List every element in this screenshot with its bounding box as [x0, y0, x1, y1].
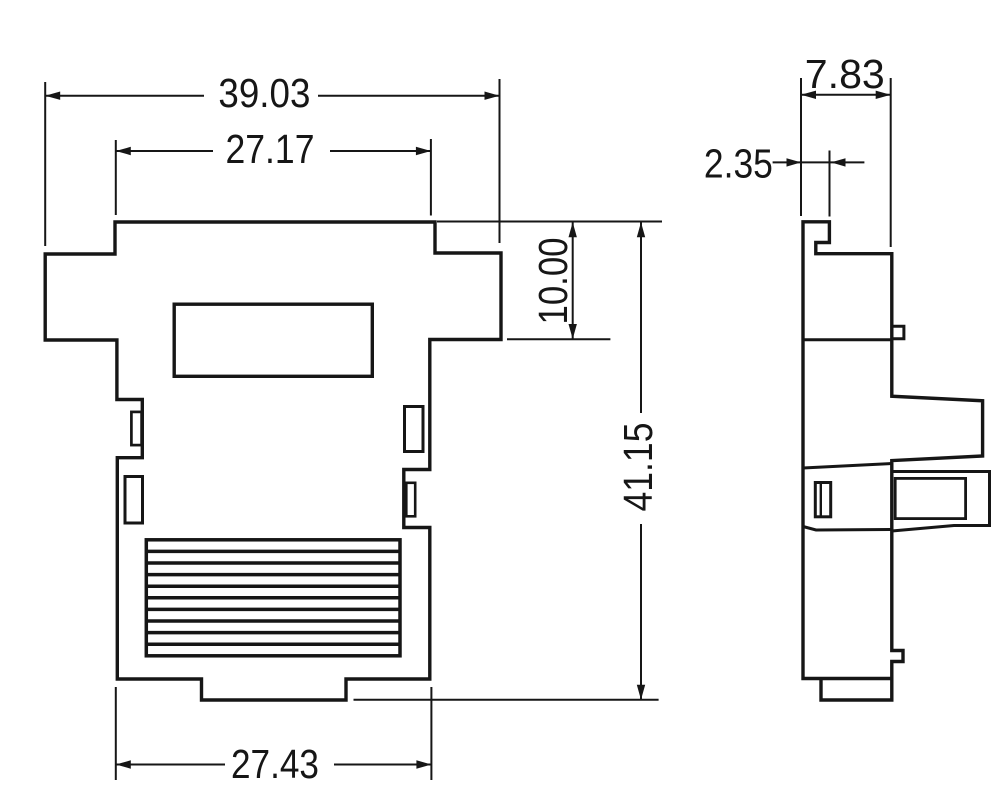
- ext line 27.17 right: [430, 139, 432, 216]
- dim line 7.83: [801, 94, 891, 96]
- ext line 39.03 right: [499, 79, 501, 243]
- side view lower jaw inner rect: [895, 478, 965, 518]
- side view clamp bottom edge: [803, 527, 892, 531]
- ext line 41.15 bottom: [354, 699, 659, 701]
- side view spine outline: [803, 222, 983, 679]
- side view button inner line: [820, 483, 822, 517]
- dim line 10.00: [572, 222, 574, 339]
- svg-text:27.17: 27.17: [226, 126, 315, 172]
- ext line 10.00 bottom: [507, 338, 610, 340]
- side view lower jaw: [892, 472, 990, 532]
- svg-text:39.03: 39.03: [218, 70, 310, 116]
- arrow 27.43 right: [416, 760, 431, 768]
- svg-text:7.83: 7.83: [805, 51, 885, 97]
- ext line 7.83 right: [890, 78, 892, 247]
- svg-text:2.35: 2.35: [704, 141, 773, 187]
- arrow 10.00 top: [569, 222, 577, 237]
- dim line 27.43: [116, 764, 432, 766]
- arrow 41.15 top: [637, 222, 645, 237]
- dim line 27.17: [116, 150, 431, 152]
- ext line 27.43 left: [115, 687, 117, 780]
- arrow 27.43 left: [116, 760, 131, 768]
- dim line 2.35: [773, 161, 865, 163]
- ext line 27.17 left: [115, 140, 117, 215]
- svg-text:27.43: 27.43: [231, 741, 319, 787]
- ext line 39.03 left: [44, 82, 46, 246]
- rib lines: [146, 551, 400, 644]
- svg-text:41.15: 41.15: [615, 423, 661, 512]
- arrow 39.03 right: [485, 92, 500, 100]
- side view flange internal line: [803, 338, 892, 341]
- front view outline: [45, 222, 501, 700]
- arrow 39.03 left: [45, 92, 60, 100]
- side view foot: [821, 679, 892, 701]
- ribbed cable grip box: [146, 540, 400, 656]
- arrow 2.35 left: [787, 158, 802, 166]
- svg-text:10.00: 10.00: [530, 238, 576, 325]
- label recess rectangle: [174, 304, 372, 376]
- side view small right tab: [892, 326, 904, 339]
- arrow 27.17 left: [116, 147, 131, 155]
- right latch window lower: [406, 483, 415, 517]
- ext line top right horizontal: [437, 221, 662, 223]
- ext line 27.43 right: [430, 687, 432, 780]
- left latch window upper: [131, 412, 141, 445]
- ext line 7.83 left: [800, 78, 802, 216]
- side view button rect: [815, 483, 830, 517]
- arrow 2.35 right: [831, 158, 846, 166]
- arrow 10.00 bottom: [569, 324, 577, 339]
- arrow 41.15 bottom: [637, 685, 645, 700]
- dim line 39.03: [45, 95, 499, 97]
- ext line 2.35 right: [829, 151, 831, 217]
- dim line 41.15: [640, 222, 642, 700]
- left latch window lower: [125, 477, 143, 524]
- arrow 7.83 right: [876, 91, 891, 99]
- arrow 7.83 left: [801, 91, 816, 99]
- right latch window upper: [405, 407, 424, 452]
- arrow 27.17 right: [416, 147, 431, 155]
- side view clamp top edge: [803, 464, 892, 469]
